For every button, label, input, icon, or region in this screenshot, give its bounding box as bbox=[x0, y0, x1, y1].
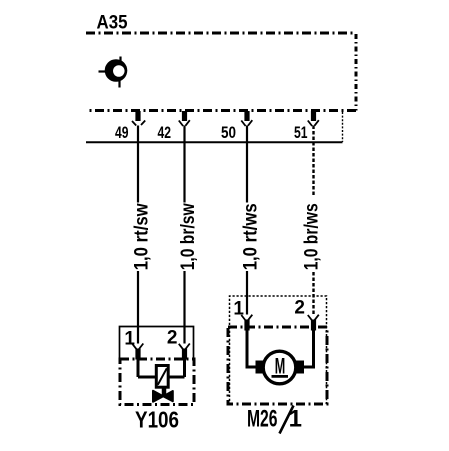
svg-text:1,0 rt/ws: 1,0 rt/ws bbox=[241, 203, 262, 270]
wire pin49 to Y106 pin1 (upper segment) bbox=[137, 126, 139, 203]
connector block on M26/1 bbox=[230, 296, 327, 405]
wire pin50 to M26/1 pin1 (lower segment) bbox=[246, 271, 248, 315]
svg-text:M: M bbox=[275, 354, 286, 379]
svg-text:1: 1 bbox=[289, 406, 302, 433]
label M26/1 bbox=[247, 406, 302, 434]
pin 51 bbox=[294, 111, 319, 142]
svg-text:49: 49 bbox=[115, 124, 129, 142]
svg-text:1,0 br/sw: 1,0 br/sw bbox=[178, 203, 199, 270]
connector rail (bus line) bbox=[86, 141, 343, 143]
wire pin51 to M26/1 pin2 (lower segment) bbox=[312, 272, 314, 315]
Y106 valve body (seat valve bowtie) bbox=[153, 387, 173, 402]
svg-text:50: 50 bbox=[221, 124, 236, 142]
component Y106 boundary bbox=[120, 359, 194, 405]
connector block on Y106 bbox=[120, 327, 194, 359]
pin 50 bbox=[221, 111, 252, 142]
svg-text:51: 51 bbox=[294, 124, 308, 142]
svg-text:1,0 br/ws: 1,0 br/ws bbox=[302, 203, 323, 270]
wire pin50 to M26/1 pin1 (upper segment) bbox=[246, 126, 248, 203]
wire pin42 to Y106 pin2 (upper segment) bbox=[183, 126, 185, 203]
A35 component symbol (connector icon) bbox=[99, 57, 128, 88]
wire pin49 to Y106 pin1 (lower segment) bbox=[137, 271, 139, 344]
svg-text:42: 42 bbox=[158, 124, 172, 142]
pin 42 bbox=[158, 111, 190, 142]
svg-text:A35: A35 bbox=[97, 13, 128, 34]
motor M26/1 symbol bbox=[256, 351, 305, 384]
M26/1 internal wiring bbox=[247, 330, 314, 367]
wire pin42 to Y106 pin2 (lower segment) bbox=[183, 271, 185, 344]
wire pin51 to M26/1 pin2 (upper segment) bbox=[312, 126, 314, 198]
rail link to A35 box bbox=[342, 112, 344, 142]
M26/1 pin 2 bbox=[294, 297, 318, 330]
Y106 solenoid coil (actuator box with diagonal) bbox=[156, 366, 168, 388]
component M26/1 boundary bbox=[228, 327, 327, 404]
M26/1 pin 1 bbox=[233, 299, 252, 331]
Y106 pin 2 bbox=[167, 328, 190, 360]
pin 49 bbox=[115, 111, 145, 142]
svg-text:Y106: Y106 bbox=[135, 406, 179, 432]
svg-text:2: 2 bbox=[294, 297, 305, 318]
svg-text:1,0 rt/sw: 1,0 rt/sw bbox=[132, 203, 153, 270]
Y106 internal wiring bbox=[138, 359, 185, 377]
svg-text:M26: M26 bbox=[247, 406, 278, 433]
Y106 pin 1 bbox=[124, 329, 143, 360]
control unit A35 outline bbox=[86, 32, 356, 35]
svg-text:2: 2 bbox=[167, 328, 178, 349]
